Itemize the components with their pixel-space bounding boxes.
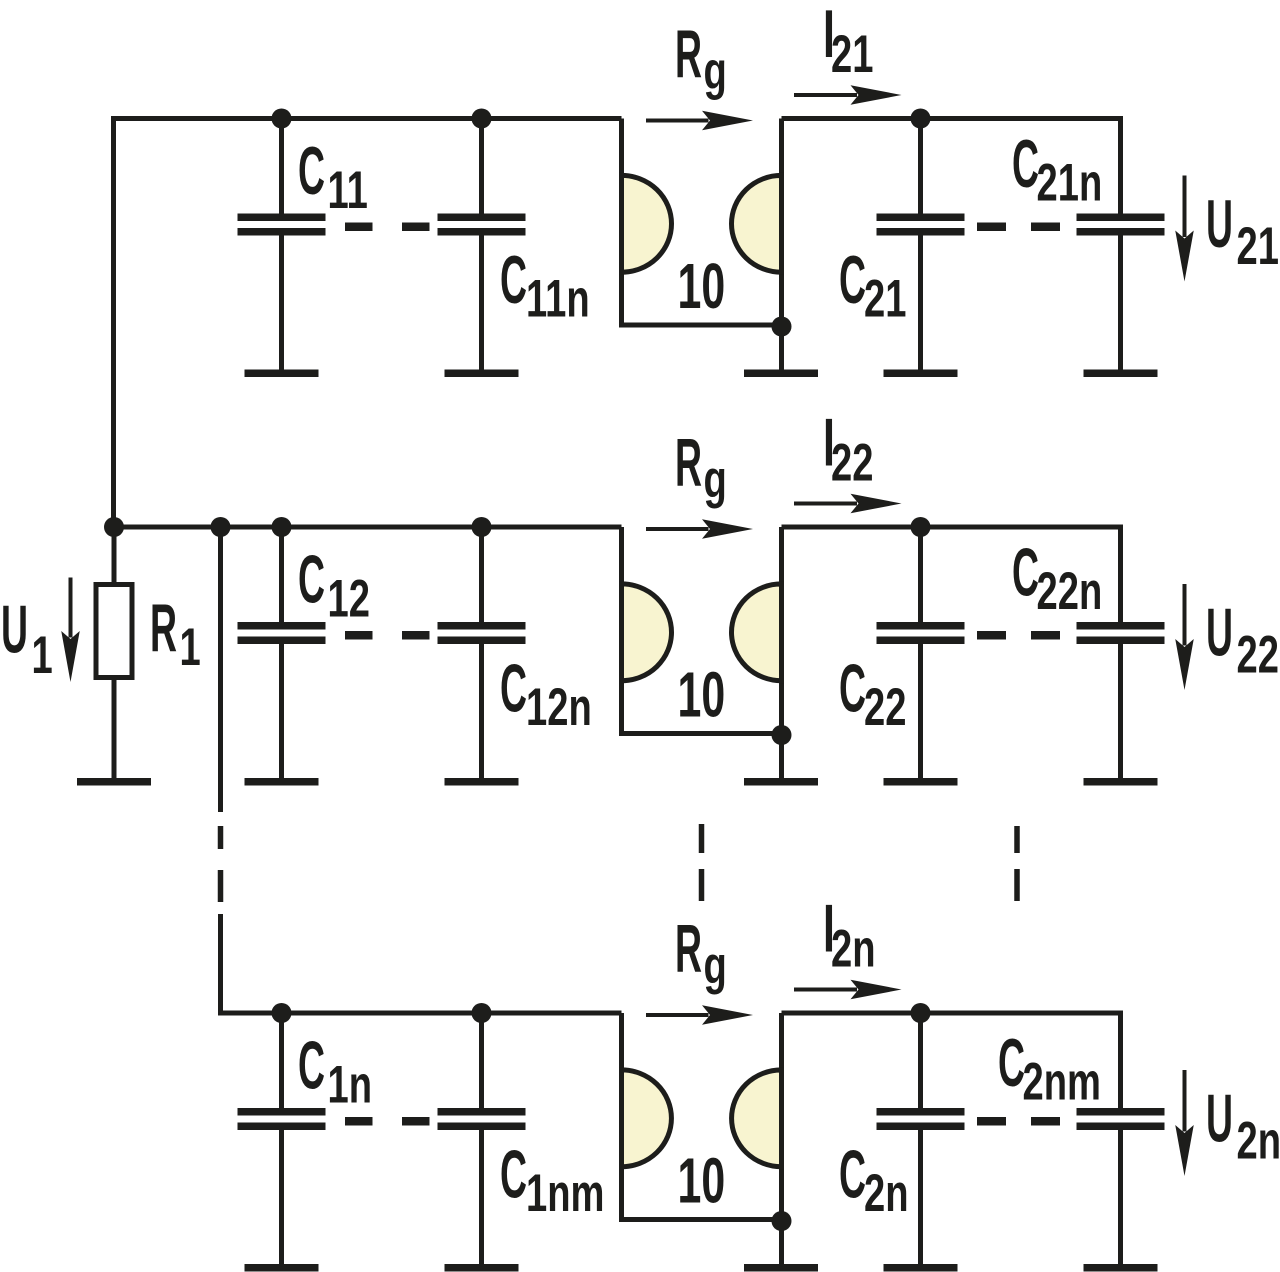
wire: [782, 527, 1121, 624]
svg-text:1: 1: [180, 617, 201, 677]
node: [272, 1003, 292, 1023]
svg-text:22: 22: [1237, 624, 1279, 684]
node: [911, 109, 931, 129]
label C12: [298, 541, 370, 628]
current arrow I21: [794, 85, 902, 105]
svg-text:C: C: [298, 541, 325, 618]
svg-text:2nm: 2nm: [1023, 1051, 1101, 1111]
svg-text:C: C: [298, 1027, 325, 1104]
svg-text:C: C: [500, 650, 527, 727]
dashed line C1n..C1nm: [345, 1117, 430, 1126]
label C1n: [298, 1027, 372, 1114]
label C22n: [1012, 534, 1102, 621]
capacitor C21: [877, 119, 965, 372]
svg-text:12: 12: [328, 568, 370, 628]
svg-text:C: C: [998, 1024, 1025, 1101]
svg-text:10: 10: [678, 659, 726, 731]
capacitor C22: [877, 527, 965, 780]
ground: [77, 778, 151, 786]
label C2n: [839, 1136, 909, 1223]
label I22: [823, 406, 873, 492]
label Rg: [675, 910, 727, 995]
coupling electrodes: [620, 1013, 782, 1266]
voltage arrow U2n: [1175, 1070, 1194, 1176]
svg-text:C: C: [839, 1136, 866, 1213]
svg-text:g: g: [704, 935, 727, 995]
dashed line C12..C12n: [345, 631, 430, 640]
label C11: [298, 132, 368, 219]
capacitor C12: [238, 527, 326, 780]
node (electrode/ground junction): [772, 725, 792, 745]
voltage arrow U21: [1175, 176, 1194, 282]
wire: [782, 119, 1121, 216]
svg-text:22: 22: [864, 677, 906, 737]
svg-text:C: C: [500, 241, 527, 318]
capacitor C12n: [438, 527, 526, 780]
label Rg: [675, 424, 727, 509]
current arrow I22: [794, 494, 902, 514]
ground: [1084, 1264, 1158, 1272]
label I21: [823, 0, 873, 83]
node: [104, 517, 124, 537]
node: [911, 517, 931, 537]
svg-text:2n: 2n: [864, 1163, 909, 1223]
wire: [782, 1013, 1121, 1110]
resistor Rg (arrow): [646, 519, 753, 539]
capacitor C1nm: [438, 1013, 526, 1266]
label C11n: [500, 241, 590, 328]
capacitor C11: [238, 119, 326, 372]
svg-text:C: C: [839, 650, 866, 727]
capacitor C21n: [1077, 214, 1165, 372]
svg-text:g: g: [704, 449, 727, 509]
ground: [744, 370, 818, 378]
continuation dashes (right column): [1014, 826, 1020, 901]
ground: [1084, 370, 1158, 378]
label C22: [839, 650, 906, 737]
current arrow I2n: [794, 980, 902, 1000]
node (electrode/ground junction): [772, 1211, 792, 1231]
ground: [1084, 778, 1158, 786]
coupling electrodes: [620, 119, 782, 372]
wire: [114, 525, 622, 530]
svg-text:22n: 22n: [1037, 561, 1103, 621]
svg-text:1nm: 1nm: [526, 1163, 604, 1223]
svg-text:1n: 1n: [328, 1054, 373, 1114]
node (electrode/ground junction): [772, 317, 792, 337]
svg-text:11: 11: [328, 160, 368, 220]
ground: [744, 778, 818, 786]
label C21: [839, 241, 906, 328]
wire (dashed continuation to row n): [218, 527, 622, 1013]
ground: [884, 370, 958, 378]
node: [211, 517, 231, 537]
capacitor C11n: [438, 119, 526, 372]
svg-text:R: R: [150, 589, 177, 666]
resistor Rg (arrow): [646, 1005, 753, 1025]
svg-text:U: U: [1, 591, 28, 668]
voltage arrow U1: [61, 578, 80, 683]
dashed line C22..C22n: [977, 631, 1060, 640]
svg-text:21: 21: [831, 24, 873, 84]
svg-text:2n: 2n: [831, 918, 876, 978]
label C2nm: [998, 1024, 1101, 1111]
label U2n: [1206, 1080, 1280, 1170]
node: [272, 109, 292, 129]
svg-text:21: 21: [864, 268, 906, 328]
label U22: [1206, 594, 1279, 684]
dashed line C11..C11n: [345, 223, 430, 232]
svg-text:10: 10: [678, 1145, 726, 1217]
node: [911, 1003, 931, 1023]
svg-text:U: U: [1206, 1080, 1233, 1157]
label C1nm: [500, 1136, 604, 1223]
label R1: [150, 589, 201, 676]
ground: [445, 778, 519, 786]
node: [472, 109, 492, 129]
svg-text:C: C: [1012, 534, 1039, 611]
capacitor C2n: [877, 1013, 965, 1266]
resistor Rg (arrow): [646, 111, 753, 131]
label I2n: [823, 892, 876, 978]
wire: [114, 119, 622, 530]
label U21: [1206, 185, 1279, 275]
capacitor C2nm: [1077, 1108, 1165, 1266]
svg-text:C: C: [500, 1136, 527, 1213]
svg-text:11n: 11n: [526, 268, 590, 328]
ground: [445, 1264, 519, 1272]
svg-text:g: g: [704, 41, 727, 101]
svg-text:10: 10: [678, 250, 726, 322]
svg-text:21n: 21n: [1037, 152, 1103, 212]
svg-text:12n: 12n: [526, 677, 592, 737]
dashed line C2n..C2nm: [977, 1117, 1060, 1126]
label C12n: [500, 650, 592, 737]
voltage arrow U22: [1175, 584, 1194, 690]
node: [472, 517, 492, 537]
label Rg: [675, 15, 727, 100]
ground: [884, 1264, 958, 1272]
coupling electrodes: [620, 527, 782, 780]
ground: [245, 1264, 319, 1272]
node: [472, 1003, 492, 1023]
ground: [884, 778, 958, 786]
ground: [245, 370, 319, 378]
svg-text:1: 1: [32, 625, 53, 685]
svg-text:C: C: [1012, 125, 1039, 202]
dashed line C21..C21n: [977, 223, 1060, 232]
ground: [445, 370, 519, 378]
svg-text:U: U: [1206, 185, 1233, 262]
svg-text:R: R: [675, 15, 702, 92]
svg-text:R: R: [675, 424, 702, 501]
node: [272, 517, 292, 537]
svg-text:U: U: [1206, 594, 1233, 671]
continuation dashes (middle column): [699, 824, 705, 901]
resistor R1: [96, 527, 132, 780]
ground: [245, 778, 319, 786]
svg-text:22: 22: [831, 432, 873, 492]
capacitor C22n: [1077, 622, 1165, 780]
capacitor C1n: [238, 1013, 326, 1266]
ground: [744, 1264, 818, 1272]
svg-text:C: C: [298, 132, 325, 209]
label U1: [1, 591, 53, 685]
label C21n: [1012, 125, 1102, 212]
svg-text:2n: 2n: [1237, 1110, 1280, 1170]
svg-text:21: 21: [1237, 216, 1279, 276]
svg-text:R: R: [675, 910, 702, 987]
svg-text:C: C: [839, 241, 866, 318]
